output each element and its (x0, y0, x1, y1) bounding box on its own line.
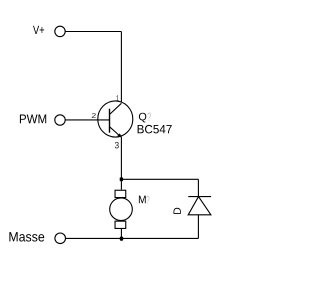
label D rotated (174, 208, 181, 214)
transistor collector stroke (110, 103, 122, 114)
terminal V+ circle (55, 26, 65, 36)
wire Masse to diode (66, 237, 199, 239)
label Q ref mark (147, 113, 151, 121)
pin number 2 (92, 113, 96, 118)
label M (139, 196, 146, 204)
pin number 1 (116, 95, 118, 100)
terminal PWM circle (55, 115, 65, 125)
label M ref mark (146, 196, 149, 204)
terminal Masse label (9, 232, 44, 241)
label BC547 (138, 125, 172, 134)
motor M? top brush (115, 190, 126, 197)
motor M? bottom brush (115, 221, 126, 228)
transistor emitter arrow (117, 133, 122, 137)
transistor emitter stroke (110, 127, 121, 137)
diode D cathode bar (188, 196, 211, 198)
wire diode top vertical (197, 179, 199, 196)
terminal Masse circle (55, 233, 66, 244)
terminal PWM label (20, 115, 46, 124)
wire diode bottom vertical (197, 215, 199, 239)
motor M? body circle (110, 198, 133, 221)
wire emitter to motor (120, 137, 122, 189)
terminal V+ label (33, 26, 44, 34)
wire motor to bottom node (120, 229, 122, 239)
label Q (139, 113, 146, 123)
wire node to diode horizontal (121, 178, 198, 180)
node junction top (120, 177, 123, 181)
pin number 3 (115, 142, 119, 148)
wire V+ horizontal (65, 31, 121, 33)
node junction bottom (120, 237, 123, 241)
wire PWM to base (65, 119, 110, 121)
diode D triangle (188, 197, 211, 215)
wire collector vertical (120, 32, 122, 103)
transistor Q? body circle (98, 101, 133, 137)
transistor base bar (109, 109, 111, 133)
